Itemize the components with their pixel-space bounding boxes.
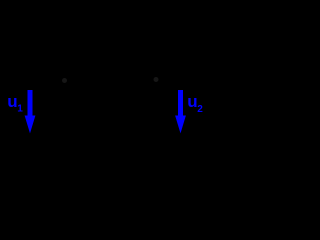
wire top-left terminal lead: [30, 87, 75, 89]
voltage arrow u1: [25, 90, 36, 133]
label u2: [187, 92, 203, 115]
wire bottom-right terminal lead: [145, 135, 190, 137]
wire bottom-left terminal lead: [30, 135, 75, 137]
wire top-right terminal lead: [145, 87, 190, 89]
winding L1 primary: [69, 88, 75, 136]
svg-text:1: 1: [17, 104, 23, 115]
svg-text:u: u: [7, 92, 17, 111]
label u1: [7, 92, 23, 115]
core: [104, 78, 116, 146]
svg-text:2: 2: [197, 104, 203, 115]
voltage arrow u2: [175, 90, 186, 133]
polarity dot primary: [62, 78, 67, 83]
winding L2 secondary: [145, 88, 151, 136]
svg-text:u: u: [187, 92, 197, 111]
polarity dot secondary: [154, 77, 159, 82]
